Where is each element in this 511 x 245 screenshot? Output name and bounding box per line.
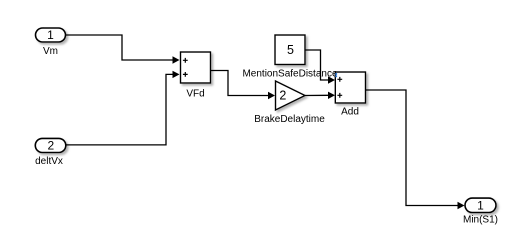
svg-text:Min(S1): Min(S1) bbox=[463, 215, 498, 226]
svg-text:Add: Add bbox=[341, 107, 359, 118]
blue colon mark bbox=[335, 73, 337, 75]
wire constant to Add input 1 bbox=[305, 50, 335, 84]
constant block MentionSafeDistance bbox=[275, 35, 305, 65]
svg-text:MentionSafeDistance: MentionSafeDistance bbox=[242, 69, 337, 80]
svg-text:BrakeDelaytime: BrakeDelaytime bbox=[254, 114, 325, 125]
svg-text:5: 5 bbox=[287, 43, 294, 57]
gain block BrakeDelaytime bbox=[276, 81, 306, 110]
svg-text:1: 1 bbox=[47, 28, 54, 42]
plus sign input 1 of Add bbox=[337, 77, 342, 82]
svg-text:2: 2 bbox=[279, 88, 286, 102]
sum block VFd bbox=[181, 52, 211, 83]
plus sign input 1 of VFd bbox=[183, 58, 188, 63]
svg-text:VFd: VFd bbox=[186, 89, 204, 100]
wire gain to Add input 2 bbox=[305, 92, 335, 99]
sum block Add bbox=[335, 72, 365, 103]
svg-text:deltVx: deltVx bbox=[35, 156, 63, 167]
plus sign input 2 of VFd bbox=[183, 72, 188, 77]
wire VFd output to gain BrakeDelaytime bbox=[211, 71, 276, 100]
wire Vm to VFd input 1 bbox=[66, 35, 180, 64]
outport 1 Min(S1) bbox=[465, 198, 496, 212]
wire deltVx to VFd input 2 bbox=[66, 71, 180, 145]
svg-text:2: 2 bbox=[47, 138, 54, 152]
inport 1 Vm bbox=[36, 28, 66, 42]
wire Add output to outport Min(S1) bbox=[365, 90, 464, 209]
svg-text:Vm: Vm bbox=[43, 46, 58, 57]
svg-text:1: 1 bbox=[477, 198, 484, 212]
plus sign input 2 of Add bbox=[337, 93, 342, 98]
inport 2 deltVx bbox=[35, 138, 66, 152]
